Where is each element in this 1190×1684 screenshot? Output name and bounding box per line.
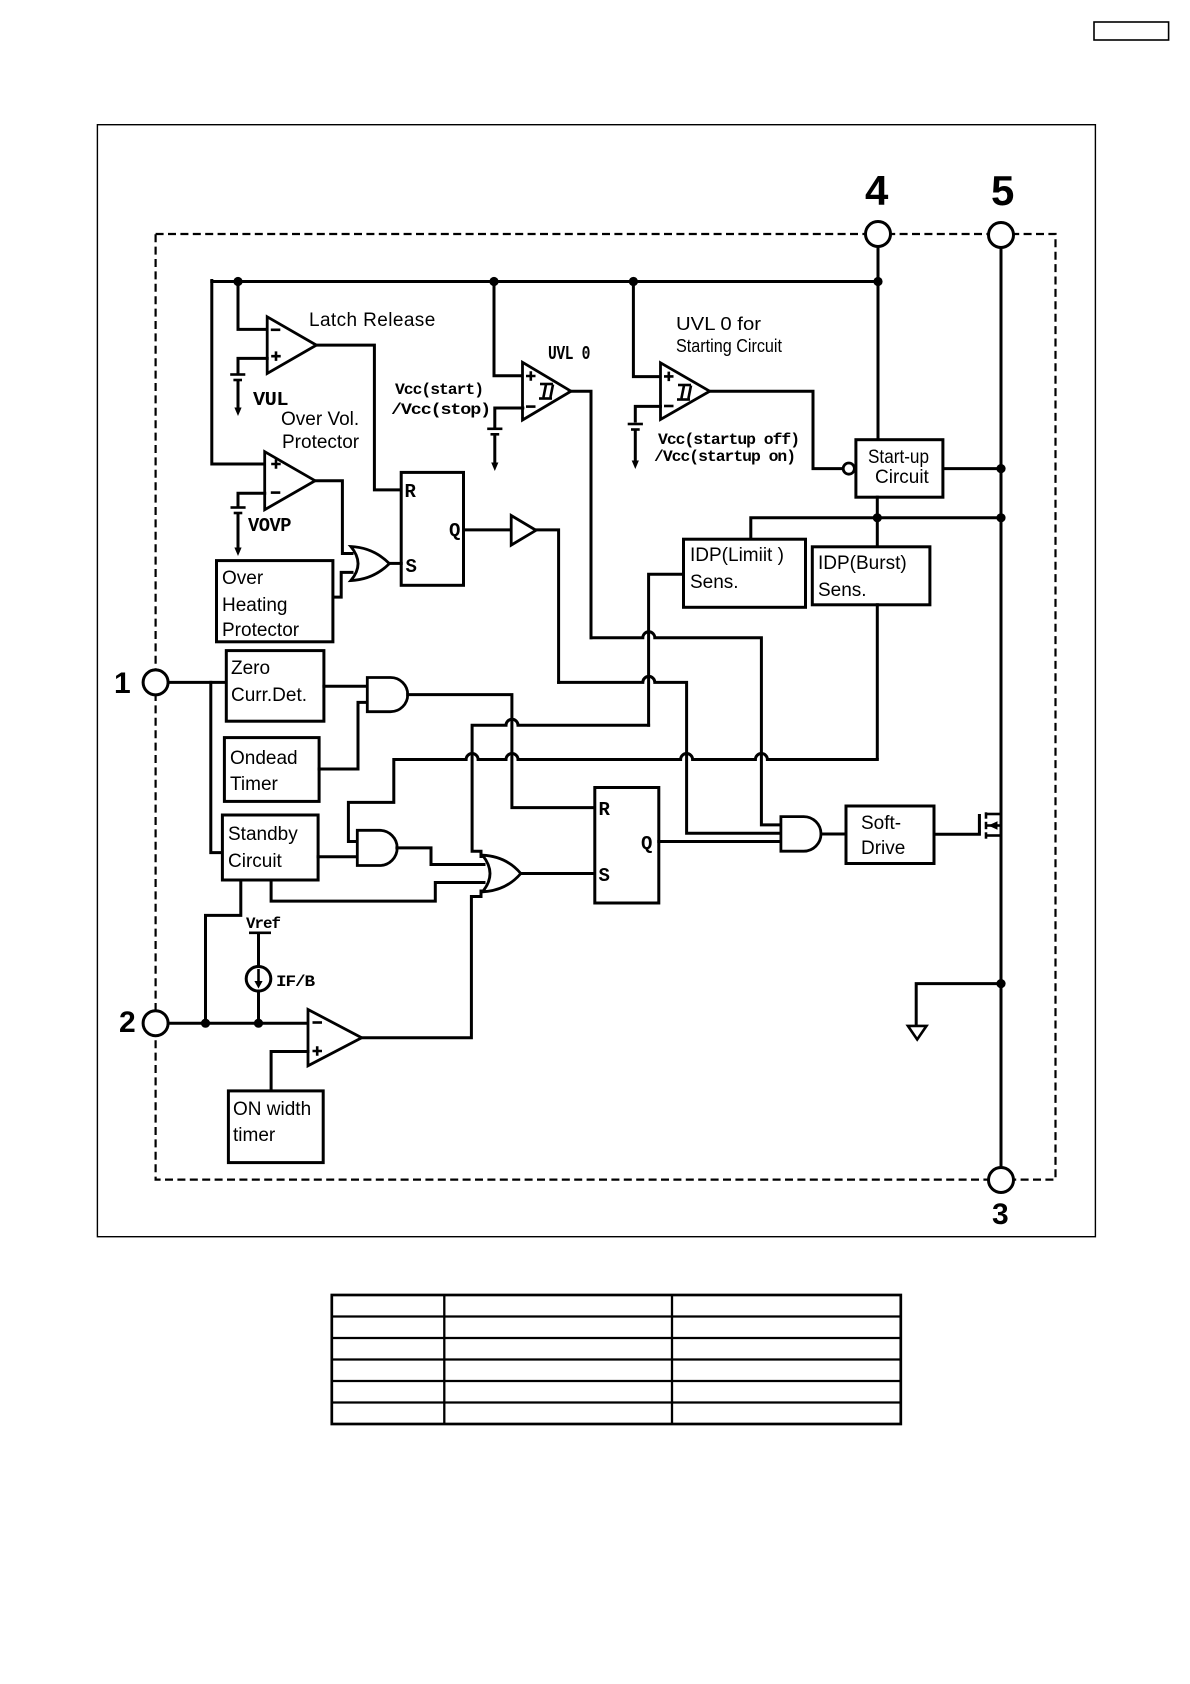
comparator: UVL0 for Starting Circuit bbox=[661, 363, 710, 420]
wire: Soft-Drive output to MOSFET gate bbox=[934, 816, 979, 835]
current source: IF/B bbox=[246, 967, 271, 992]
svg-text:UVL 0: UVL 0 bbox=[548, 343, 590, 365]
svg-text:/Vcc(startup on): /Vcc(startup on) bbox=[654, 448, 795, 466]
wire: sense bus bbox=[751, 518, 1001, 539]
svg-text:VOVP: VOVP bbox=[248, 515, 291, 537]
svg-text:5: 5 bbox=[991, 167, 1014, 214]
svg-text:Over Vol.: Over Vol. bbox=[281, 409, 359, 430]
wire: ON width timer to error amp + input bbox=[271, 1052, 308, 1091]
svg-text:Ondead: Ondead bbox=[230, 748, 298, 769]
node: bus junction at pin 4 bbox=[873, 277, 882, 286]
wire: VUL reference into Latch Release + input bbox=[238, 358, 267, 372]
svg-text:Protector: Protector bbox=[222, 620, 300, 641]
wire: Vref bar and stem bbox=[249, 931, 271, 934]
gate: OR1 latch set bbox=[351, 547, 390, 581]
block: ON width timer bbox=[228, 1091, 323, 1163]
svg-text:2: 2 bbox=[119, 1006, 136, 1039]
wire: AND2 output to OR2 bbox=[397, 848, 484, 865]
wire: pin1 to Zero Curr.Det. bbox=[169, 681, 227, 684]
svg-text:Vcc(startup off): Vcc(startup off) bbox=[658, 431, 799, 449]
wire: VOVP reference into Over Vol - input bbox=[238, 493, 265, 505]
wire: top Vcc bus bbox=[212, 280, 878, 283]
wire: latch1 Q to buffer bbox=[464, 528, 512, 531]
wire: H-c burst line to AND2 upper input bbox=[348, 754, 877, 842]
wire: Zero Curr.Det. output to AND1 bbox=[324, 685, 367, 688]
battery: VUL reference bbox=[230, 375, 245, 417]
svg-text:Start-up: Start-up bbox=[868, 447, 929, 468]
wire: Standby bottom line to OR2 bbox=[271, 880, 484, 901]
pin 1 port bbox=[143, 670, 168, 695]
svg-text:Starting Circuit: Starting Circuit bbox=[676, 336, 782, 356]
wire: startup-UVL0 - input reference bbox=[635, 406, 660, 421]
wire: H-a UVL0 line to AND3 top input bbox=[591, 632, 781, 825]
node: sense bus junction at x877 bbox=[873, 513, 882, 522]
wire: pin 5 rail down to pin 3 bbox=[1000, 249, 1003, 1167]
node: inverting bubble at Start-up input bbox=[843, 463, 854, 474]
svg-text:UVL 0 for: UVL 0 for bbox=[676, 314, 761, 334]
svg-text:Standby: Standby bbox=[228, 824, 298, 845]
block: Ondead Timer bbox=[224, 738, 319, 802]
svg-text:S: S bbox=[599, 865, 610, 887]
svg-text:IDP(Burst): IDP(Burst) bbox=[818, 553, 907, 574]
ground symbol bbox=[908, 1026, 927, 1040]
hysteresis mark U2 bbox=[539, 384, 553, 399]
svg-text:ON width: ON width bbox=[233, 1099, 311, 1120]
svg-text:IF/B: IF/B bbox=[276, 973, 316, 991]
wire: error amp output to OR2 bottom input bbox=[362, 891, 481, 1038]
wire: Ondead Timer output to AND1 lower input bbox=[319, 702, 367, 769]
node: bus junction B bbox=[489, 277, 498, 286]
wire: bus left drop to Over Vol + input bbox=[212, 281, 265, 465]
svg-text:VUL: VUL bbox=[253, 389, 288, 411]
svg-text:R: R bbox=[405, 481, 417, 503]
wire: Start-up output to pin5 rail bbox=[943, 467, 1001, 470]
svg-text:Vcc(start): Vcc(start) bbox=[395, 381, 483, 399]
comparator: UVL0 bbox=[523, 362, 572, 420]
wire: IDP(Burst) bottom drop bbox=[876, 605, 879, 758]
block: IDP(Limiit) Sens. bbox=[684, 539, 806, 607]
pin 5 port bbox=[989, 223, 1014, 248]
svg-text:Drive: Drive bbox=[861, 838, 905, 859]
wire: startup-UVL0 output to Start-up Circuit bbox=[710, 391, 842, 468]
svg-text:Timer: Timer bbox=[230, 774, 279, 795]
battery: VOVP reference bbox=[231, 508, 246, 557]
wire: latch2 Q to AND3 bbox=[659, 840, 781, 843]
battery: Vcc(startup) threshold bbox=[628, 424, 643, 469]
svg-text:IDP(Limiit ): IDP(Limiit ) bbox=[690, 545, 784, 566]
buffer: latch1 Q buffer bbox=[511, 516, 536, 546]
wire: AND3 output to Soft-Drive bbox=[821, 833, 846, 836]
svg-text:4: 4 bbox=[865, 167, 889, 214]
comparator: error amp bbox=[308, 1010, 362, 1066]
wire: OR2 output to latch2 S bbox=[521, 872, 595, 875]
wire: Standby output to AND2 bbox=[318, 855, 357, 858]
wire: branch to startup-UVL0 + input bbox=[633, 282, 660, 377]
block: Soft-Drive bbox=[846, 806, 934, 864]
gate: AND3 drive gate bbox=[781, 817, 821, 852]
svg-text:1: 1 bbox=[114, 667, 131, 700]
block: Standby Circuit bbox=[222, 815, 318, 880]
wire: ground branch from pin5 rail bbox=[916, 984, 1001, 1024]
svg-text:Vref: Vref bbox=[246, 915, 280, 933]
svg-text:3: 3 bbox=[992, 1198, 1009, 1231]
svg-text:Latch Release: Latch Release bbox=[309, 310, 436, 331]
block: Zero Curr.Det. bbox=[226, 651, 324, 722]
wire: branch to Latch Release - input bbox=[238, 282, 267, 330]
wire: Start-up bottom to IDP(Burst) top bbox=[876, 497, 879, 547]
wire: IDP(Limiit) output down to H1 bbox=[649, 574, 684, 725]
svg-text:Soft-: Soft- bbox=[861, 813, 901, 834]
svg-text:Over: Over bbox=[222, 568, 264, 589]
node: ground branch junction bbox=[996, 979, 1005, 988]
wire: H-b to AND3 middle input bbox=[559, 676, 781, 833]
svg-text:Q: Q bbox=[449, 520, 460, 542]
wire: Over Heating output to OR1 low input bbox=[333, 572, 352, 597]
node: junction on pin5 rail bbox=[996, 464, 1005, 473]
svg-text:Circuit: Circuit bbox=[875, 467, 930, 488]
wire: Latch Release output to latch1 R bbox=[316, 345, 401, 490]
block: Start-up Circuit bbox=[856, 440, 943, 498]
gate: OR2 set gate bbox=[483, 855, 521, 892]
svg-text:R: R bbox=[599, 799, 611, 821]
gate: AND1 zero-current bbox=[367, 678, 407, 712]
latch: RS latch 2 bbox=[595, 788, 659, 904]
svg-text:Q: Q bbox=[641, 833, 652, 855]
svg-text:Curr.Det.: Curr.Det. bbox=[231, 685, 307, 706]
pin 2 port bbox=[143, 1011, 168, 1036]
svg-text:timer: timer bbox=[233, 1125, 276, 1146]
wire: latch1 Q buffer output to H-b bbox=[536, 530, 559, 683]
wire: Over Vol output to OR1 top input bbox=[315, 481, 352, 554]
svg-text:Protector: Protector bbox=[282, 432, 360, 453]
node: sense bus junction at pin5 rail bbox=[996, 513, 1005, 522]
wire: branch to UVL0 + input bbox=[494, 282, 523, 376]
block: IDP(Burst) Sens. bbox=[812, 547, 930, 605]
battery: Vcc(start) threshold bbox=[487, 429, 502, 471]
wire: UVL0 - input reference bbox=[495, 408, 523, 426]
outer frame bbox=[97, 125, 1095, 1237]
wire: pin 4 drop to Start-up Circuit bbox=[877, 247, 880, 440]
node: junction IF-B/pin2 bbox=[254, 1019, 263, 1028]
transistor: output MOSFET bbox=[979, 812, 1001, 838]
wire: IF/B to pin2 line bbox=[257, 991, 260, 1023]
block: Over Heating Protector bbox=[217, 561, 333, 642]
spec table bbox=[332, 1295, 901, 1424]
pin 3 port bbox=[989, 1168, 1014, 1193]
node: bus junction C bbox=[629, 277, 638, 286]
svg-text:Heating: Heating bbox=[222, 595, 288, 616]
IC dashed boundary bbox=[156, 234, 1056, 1180]
comparator: Over Voltage Protector bbox=[265, 452, 315, 510]
wire: OR1 output to latch1 S bbox=[389, 562, 401, 565]
svg-text:/Vcc(stop): /Vcc(stop) bbox=[391, 401, 490, 419]
pin 4 port bbox=[866, 222, 891, 247]
wire: UVL0 output down to H-a bbox=[569, 391, 591, 638]
wire: H1 to OR2 top input bbox=[472, 719, 648, 856]
top-right revision box bbox=[1094, 22, 1169, 40]
svg-text:Zero: Zero bbox=[231, 658, 270, 679]
node: bus junction A bbox=[233, 277, 242, 286]
svg-text:Circuit: Circuit bbox=[228, 851, 283, 872]
hysteresis mark U3 bbox=[677, 385, 691, 400]
svg-text:Sens.: Sens. bbox=[818, 580, 867, 601]
wire: AND1 output to latch2 R bbox=[408, 695, 595, 808]
wire: pin1 branch down to Standby Circuit bbox=[211, 682, 223, 852]
comparator: Latch Release bbox=[267, 317, 316, 374]
wire: pin2 feedback line to error amp - input bbox=[169, 1022, 309, 1025]
latch: RS latch 1 bbox=[401, 472, 463, 585]
svg-text:Sens.: Sens. bbox=[690, 572, 739, 593]
gate: AND2 standby bbox=[357, 830, 397, 865]
wire: Standby to pin2 line bbox=[206, 880, 241, 1023]
node: junction standby/pin2 bbox=[201, 1019, 210, 1028]
svg-text:S: S bbox=[406, 556, 417, 578]
